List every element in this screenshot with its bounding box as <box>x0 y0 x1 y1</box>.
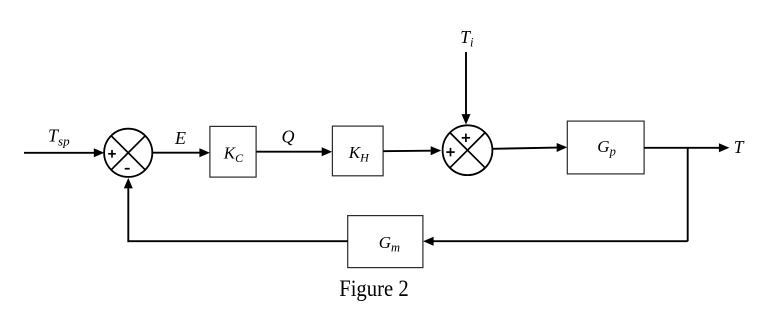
wire: signal Q from KC to KH <box>256 147 332 156</box>
summing junction S2 (circle with X, + top, + left) <box>443 125 493 175</box>
wire: setpoint input arrow into summer S1 <box>24 148 104 157</box>
block KH (heater) <box>332 126 383 176</box>
summing junction S1 (circle with X, + left, - bottom) <box>104 129 152 177</box>
S1 plus sign (left input) <box>108 150 116 158</box>
svg-text:Q: Q <box>282 127 295 147</box>
wire: S2 output into block Gp <box>492 143 567 152</box>
wire: error signal E from S1 to block KC <box>152 148 210 157</box>
svg-text:T: T <box>734 137 745 157</box>
block KC (controller) <box>210 126 256 177</box>
wire: Gp output to T with arrowhead <box>644 143 729 152</box>
S2 plus sign (left input) <box>446 148 454 156</box>
wire: feedback horizontal into Gm (arrow pointing left) <box>423 237 688 246</box>
block Gm (measurement) <box>348 216 423 268</box>
S2 plus sign (top input) <box>462 134 470 142</box>
svg-text:E: E <box>174 128 186 148</box>
svg-text:Figure 2: Figure 2 <box>339 276 409 301</box>
block Gp (process) <box>567 121 644 174</box>
wire: Ti disturbance arrow down into summer S2 <box>462 52 471 125</box>
wire: KH output into summer S2 <box>383 146 441 155</box>
node: branch takeoff, vertical wire down from output line <box>687 148 689 241</box>
S1 minus sign (bottom input) <box>125 168 130 170</box>
wire: feedback vertical up into S1 (arrow up) <box>124 178 133 242</box>
wire: feedback from Gm left to below S1 <box>128 240 347 242</box>
